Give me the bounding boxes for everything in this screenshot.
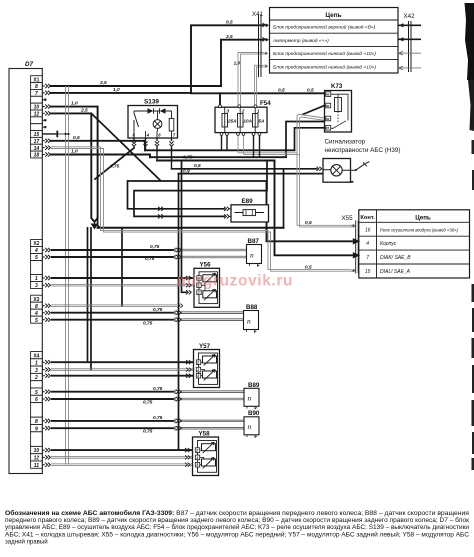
ABS modulator Y57 [194,343,220,388]
svg-text:0,75: 0,75 [145,256,155,262]
svg-text:переднего правого колеса; B89: переднего правого колеса; B89 – датчик с… [5,517,469,524]
svg-text:Блок предохранителей нижний (в: Блок предохранителей нижний (вывод «10») [273,63,376,70]
wire X4.12 to Y58 pin1 [51,457,193,459]
wire X4.9 to B90 [51,427,174,429]
diagnostic table X55 [359,210,470,278]
wire tail B88 [181,312,244,321]
svg-text:4: 4 [34,311,38,317]
wire X1.8 feed 2,5 [51,85,221,87]
connector on E89 wires [224,207,229,211]
relay K73 [325,83,352,132]
gray wire X1.14 to X55 row15 [51,147,355,271]
svg-text:B90: B90 [248,410,260,417]
wire X4.3 to Y57 pin1 [51,369,194,371]
wire X2.3 to Y56 pin1 [51,284,194,286]
wire tail B87 [181,249,247,258]
mid-wire connector symbols [132,141,322,467]
svg-text:0,75: 0,75 [143,429,153,435]
svg-text:X4: X4 [33,353,39,359]
svg-text:0,5: 0,5 [278,87,285,93]
connector X1 pin strip [31,76,43,158]
pin symbol X1.7 [42,91,50,95]
switch lever [355,169,357,171]
svg-text:25A: 25A [227,118,237,123]
gray pair wires [51,284,194,465]
connector on B88 wires [175,311,181,315]
svg-text:0,75: 0,75 [153,307,163,313]
gray wire X41 row3 to F54 pin2 [238,53,264,106]
wire X41 row1 0,5 [191,25,264,93]
svg-text:10A: 10A [243,118,252,123]
wire bus y150 [145,149,295,151]
svg-text:5: 5 [35,255,38,261]
circuit table top (X41/X42) [270,8,399,74]
wire K73 pin85 diagonal [303,106,325,115]
svg-text:n: n [247,316,251,325]
wheel speed sensor B87 [247,238,262,266]
wire feed drop to Y57 pin1 wire [90,228,92,370]
svg-text:X2: X2 [33,241,39,247]
ABS fault indicator H39 [323,139,401,183]
ECU D7 outline [9,69,42,474]
caption text [5,510,470,545]
svg-text:10: 10 [34,448,40,454]
ground symbol [92,219,101,229]
wire riser to X41 row2 [221,40,264,86]
wire X4.1 to Y57 pin2 [51,361,194,363]
connector X4 pin strip [31,352,43,469]
connector on Y56 wires [186,276,191,280]
wire X1.7 1,0 to K73 pin86 [51,92,325,94]
wire S139 pin8 diagonal 0,75 [95,148,134,179]
svg-text:5: 5 [35,318,38,324]
pin symbol X3.4 [42,311,50,315]
connector on B90 wires [175,419,181,423]
svg-text:Блок предохранителей верхний (: Блок предохранителей верхний (вывод «В») [273,24,376,31]
pin symbol X2.4 [42,248,50,252]
svg-text:14: 14 [34,146,40,152]
wire bus y157 [150,156,286,158]
pin symbol X4.6 [42,397,50,401]
svg-text:0,75: 0,75 [143,400,153,406]
svg-text:K73: K73 [331,83,343,90]
svg-text:1: 1 [196,456,198,460]
svg-text:Реле осушителя воздуха (вывод: Реле осушителя воздуха (вывод «30») [380,227,459,232]
svg-text:задний правый: задний правый [5,538,48,545]
svg-text:Y58: Y58 [199,430,211,437]
svg-text:X3: X3 [33,297,39,303]
wheel speed sensor B90 [244,410,260,437]
svg-text:10: 10 [34,105,40,111]
wire bus y173 [179,174,353,182]
connector S139 pin7 [169,141,173,146]
svg-text:Сигнализатор: Сигнализатор [325,139,366,146]
wire diagonal crossover [91,113,160,180]
svg-text:4: 4 [34,248,38,254]
wire X2.4 to B87 [51,249,174,251]
pin symbol X4.2 [42,374,50,378]
svg-text:1: 1 [35,361,38,367]
svg-text:15: 15 [34,132,40,138]
connector on B87 wires [175,248,181,252]
svg-text:D7: D7 [25,61,34,68]
pin symbol X4.12 [42,455,50,459]
wheel speed sensor B89 [244,382,260,409]
pin symbol X2.5 [42,255,50,259]
svg-text:Цепь: Цепь [325,12,341,19]
svg-text:15: 15 [365,269,371,275]
pin symbol X4.3 [42,368,50,372]
wire lamp feed drop to ground bus [283,169,285,228]
wire K73 pin87 [295,128,325,151]
D7 pin exit symbols [42,84,50,467]
svg-text:X1: X1 [33,77,39,83]
svg-text:5A: 5A [258,118,265,123]
connector X55 [342,215,359,274]
svg-text:87: 87 [326,126,330,130]
ABS modulator Y58 [193,430,219,475]
svg-text:4: 4 [366,241,369,247]
wire K73 pin87a [286,122,325,158]
svg-text:F54: F54 [260,100,271,107]
svg-text:X41: X41 [252,11,264,18]
svg-text:1: 1 [257,109,260,114]
svg-text:S139: S139 [144,99,159,106]
svg-text:0,75: 0,75 [153,386,163,392]
svg-text:Амперметр (вывод «+»): Амперметр (вывод «+») [272,38,329,44]
thin pair tails to sensors [181,249,247,429]
connector X42 [398,13,421,72]
connector S139 pin8 [132,141,136,146]
wire X1.17 0,5 [51,141,145,151]
X4 pin numbers [33,353,39,469]
svg-text:Y56: Y56 [200,261,212,268]
wire to X55 row7 [275,161,352,256]
wire X4.5 to B89 [51,391,174,393]
pin symbol X4.11 [42,463,50,467]
pin symbol X4.1 [42,360,50,364]
svg-text:2,5: 2,5 [99,80,107,86]
connector X41 [252,11,269,77]
pin symbol X1.17 [42,139,50,143]
wire X4.11 to Y58 pin3 [51,464,193,466]
svg-text:0,75: 0,75 [183,155,193,161]
stubs S139 pins down [134,138,172,169]
wire stub F54 pin3 [219,93,221,105]
svg-text:1,0: 1,0 [71,101,78,107]
svg-text:Корпус: Корпус [380,241,397,247]
wheel speed sensor B88 [244,304,259,332]
svg-text:2,5: 2,5 [225,34,233,40]
wire X3.4 to B88 [51,312,174,314]
wire X2.1 to Y56 pin4 [51,277,194,279]
sensor feed wires (thick segment + connector + thin pair) [51,250,194,450]
svg-text:12: 12 [34,112,40,118]
fuse block F54 [215,100,271,136]
wire X1.10 to ground bus [51,107,98,222]
WIRE-LABELS [71,19,314,434]
pin symbol X4.10 [42,448,50,452]
svg-text:0,5: 0,5 [305,220,312,226]
svg-text:7: 7 [35,91,38,97]
svg-text:86: 86 [326,93,330,97]
svg-text:n: n [248,394,252,403]
svg-text:2: 2 [241,109,245,114]
svg-text:0,75: 0,75 [110,164,120,170]
wire X3.8 shield [51,305,177,307]
stubs F54 bottom pins [222,135,260,157]
svg-text:E89: E89 [242,198,254,205]
gray shield pair A full height [51,53,355,465]
X2 pin numbers [33,241,39,289]
connector on lamp wire [317,167,322,171]
X1.15 shield junction [42,131,69,138]
svg-text:0,5: 0,5 [305,265,312,271]
connector X2 pin strip [31,240,43,289]
gray wire X41 row4 to F54 pin1 [255,65,264,105]
svg-text:7: 7 [366,255,369,261]
svg-text:17: 17 [34,139,40,145]
pin symbol X3.8 [42,304,50,308]
svg-text:управления АБС; E89 – осушител: управления АБС; E89 – осушитель воздуха … [5,524,469,531]
pin symbol X1.14 [42,146,50,150]
svg-text:Обозначения на схеме АБС автом: Обозначения на схеме АБС автомобиля ГАЗ-… [5,510,469,517]
svg-text:n: n [250,250,254,259]
wire ground bus y228 [98,227,284,229]
svg-text:0,75: 0,75 [153,415,163,421]
svg-text:X55: X55 [342,215,354,222]
svg-text:1,0: 1,0 [113,87,120,93]
wire to X55 row4 Korpus [267,181,352,241]
svg-text:3: 3 [35,283,38,289]
connector on E89 loop left [158,207,164,211]
svg-text:1,0: 1,0 [234,61,241,67]
svg-text:2: 2 [34,375,38,381]
wire drop to X3.8 junction [121,229,123,306]
svg-text:неисправности АБС (Н39): неисправности АБС (Н39) [325,147,401,154]
wire feed riser A [178,174,180,451]
connector on Y57 wires [186,360,191,364]
svg-text:0,5: 0,5 [307,87,314,93]
svg-text:Конт.: Конт. [360,215,375,221]
pin symbol X2.3 [42,283,50,287]
svg-text:1: 1 [35,276,38,282]
gray wire F54 pin2 bottom to K73 pin30 and X55 row16 [238,135,300,154]
wire X4.2 to Y57 pin3 [51,375,194,377]
wire X2.5 to B87 [51,256,174,258]
svg-text:n: n [248,422,252,431]
svg-text:0,9: 0,9 [183,169,190,175]
svg-text:18: 18 [34,153,40,159]
svg-text:mirgruzovik.ru: mirgruzovik.ru [177,273,293,290]
pin symbol X1.18 [42,152,50,156]
svg-text:6: 6 [35,397,38,403]
pin symbol blank row arrow [42,126,46,128]
connector X3 pin strip [31,295,43,323]
svg-text:Y57: Y57 [199,343,211,350]
wire S139 pin7 to lamp H39 [172,168,317,170]
pin symbol X1.10 [42,104,50,108]
wire feed riser B to Y56 pin7 [182,161,187,293]
wire E89 outer loop [128,181,267,209]
svg-text:16: 16 [365,227,371,233]
ABS modulator Y56 [194,261,220,307]
scan artifact black band [465,3,474,80]
wire feed drop to Y57 pin2 wire [87,228,89,362]
wire X3.5 to B88 [51,319,174,321]
diagnostic switch S139 [128,99,178,138]
svg-text:B88: B88 [246,304,258,311]
svg-text:30: 30 [326,117,330,121]
wire X1.12 to ground bus [51,113,94,221]
gray wire to X55 row16 [297,225,355,227]
svg-text:9: 9 [35,426,38,432]
X1 pin numbers [33,77,39,158]
wire E89 inner loop [134,161,267,217]
wire tail B90 [181,420,244,429]
svg-text:0,5: 0,5 [226,19,233,25]
svg-text:DIAK/ SAE_B: DIAK/ SAE_B [380,255,411,261]
wire X4.6 to B89 [51,398,174,400]
svg-text:8: 8 [35,84,38,90]
svg-text:12: 12 [34,456,40,462]
connector S139 pin4 [143,141,147,146]
pin symbol X1.12 [42,111,50,115]
svg-text:0,5: 0,5 [194,163,201,169]
pin symbol X3.5 [42,318,50,322]
svg-text:АБС; X41 – колодка штыревая; X: АБС; X41 – колодка штыревая; X55 – колод… [5,531,470,538]
svg-text:5: 5 [35,390,38,396]
wire X4.8 to B90 [51,420,174,422]
svg-text:0,75: 0,75 [143,320,153,326]
svg-text:8: 8 [35,304,38,310]
connector on X3.8 end [178,304,183,308]
pin symbol blank row arrow [42,99,46,101]
pin symbol X4.5 [42,390,50,394]
svg-text:Цепь: Цепь [415,214,431,221]
connector S139 pin6 [155,141,159,146]
svg-text:1,0: 1,0 [71,149,78,155]
svg-text:B87: B87 [248,238,260,245]
pin symbol X1.8 [42,84,50,88]
svg-text:0,75: 0,75 [150,244,160,250]
wire E89 pigtails [229,209,231,217]
air dryer E89 [231,198,269,222]
wire X1.18 1,0 [51,155,150,158]
X3 pin numbers [33,297,39,324]
pin symbol blank row arrow [42,119,46,121]
svg-text:2,5: 2,5 [80,108,88,114]
svg-text:Блок предохранителей нижний (в: Блок предохранителей нижний (вывод «10») [273,50,376,57]
pin symbol X4.9 [42,426,50,430]
svg-text:3: 3 [35,368,38,374]
wire tail B89 [181,391,244,400]
svg-text:11: 11 [34,463,39,469]
svg-text:8: 8 [35,419,38,425]
svg-text:3: 3 [227,109,230,114]
svg-text:1: 1 [197,368,199,372]
pin symbol X2.1 [42,276,50,280]
pin symbol X4.8 [42,419,50,423]
wire X4.10 to Y58 pin2 [51,449,193,451]
svg-text:X42: X42 [404,13,416,20]
svg-text:DIAL/ SAE_A: DIAL/ SAE_A [380,269,411,275]
connector on Y58 wires [185,448,190,452]
svg-text:0,5: 0,5 [73,135,80,141]
connector on B89 wires [175,390,181,394]
svg-text:85: 85 [326,104,330,108]
wire bus y160 from S139 pin6 [157,160,275,162]
